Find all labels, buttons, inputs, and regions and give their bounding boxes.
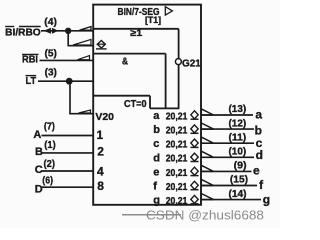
svg-text:g: g [263,193,270,207]
wire c [202,142,254,144]
svg-text:(7): (7) [44,121,55,132]
svg-text:d: d [153,152,160,164]
open-collector diamond e [191,167,199,175]
svg-text:(6): (6) [42,175,53,186]
svg-text:a: a [255,107,262,121]
wire RBO branch horizontal [68,45,94,47]
open-collector diamond f [191,181,199,189]
svg-text:[T1]: [T1] [145,15,161,25]
svg-text:(11): (11) [229,132,247,143]
svg-text:20,21: 20,21 [166,154,188,165]
svg-text:(13): (13) [229,104,247,115]
divider top of AND block [93,53,165,55]
svg-text:20,21: 20,21 [166,140,188,151]
open-collector diamond a [191,111,199,119]
svg-text:(15): (15) [230,175,248,186]
arrow left (bidirectional) [44,28,51,34]
wire G21 vertical [178,29,180,109]
open-collector diamond b [191,125,199,133]
svg-text:d: d [256,148,263,162]
svg-text:CT=0: CT=0 [124,99,147,110]
AND block right edge [165,54,167,109]
divider top of OR block [93,28,178,30]
wire d [202,156,254,158]
polarity triangle output d [201,151,213,157]
svg-text:20,21: 20,21 [166,182,188,193]
node G21 circle [175,59,181,65]
svg-text:20,21: 20,21 [166,168,188,179]
svg-text:2: 2 [97,145,104,159]
polarity triangle output e [201,165,213,171]
svg-text:1: 1 [97,128,104,142]
svg-text:≥1: ≥1 [130,28,143,39]
wire B [42,152,94,154]
svg-text:4: 4 [97,164,104,178]
symbol triangle (function indicator) [165,7,172,15]
wire C [42,170,94,172]
wire a [202,114,253,116]
polarity triangle output a [201,109,213,115]
svg-text:e: e [153,166,159,178]
open-collector diamond d [191,153,199,161]
wire V20 branch horizontal [69,113,93,115]
open-collector diamond RBO [97,41,105,49]
svg-text:CSDN @zhusl6688: CSDN @zhusl6688 [146,208,264,223]
svg-text:g: g [153,195,160,207]
svg-text:(2): (2) [44,159,56,170]
wire b [202,128,254,130]
svg-text:A: A [33,129,41,141]
wire RBI [40,59,94,61]
polarity triangle RBI [78,56,90,60]
junction node LT [66,78,73,85]
wire e [202,170,252,172]
svg-text:a: a [153,110,160,122]
divider top of CT block [93,95,150,97]
open-collector diamond g [191,195,199,203]
wire LT branch vertical [69,81,71,114]
svg-text:V20: V20 [95,112,114,123]
watermark line [122,214,181,216]
array block top edge [150,107,179,109]
svg-text:20,21: 20,21 [166,111,188,122]
svg-text:BI/RBO: BI/RBO [5,28,41,39]
svg-text:LT: LT [26,76,37,87]
arrow right (bidirectional) [52,28,58,34]
wire A [42,135,94,137]
svg-text:(1): (1) [44,140,55,151]
svg-text:b: b [153,124,160,136]
wire D [42,186,94,188]
svg-text:(3): (3) [45,67,57,78]
svg-text:(4): (4) [44,17,57,28]
polarity triangle V20 input [79,110,91,113]
wire RBO branch vertical [67,31,69,46]
svg-text:(9): (9) [234,161,247,172]
polarity triangle RBO output [73,39,91,45]
svg-text:8: 8 [97,179,104,193]
polarity triangle output c [201,137,213,143]
svg-text:20,21: 20,21 [166,126,188,137]
wire BI/RBO [41,30,93,32]
wire LT [38,80,93,82]
polarity triangle output b [201,123,213,129]
polarity triangle BI input [80,27,92,31]
svg-text:e: e [253,164,260,178]
svg-text:f: f [153,181,157,193]
svg-text:(14): (14) [229,189,247,200]
wire f [202,185,257,187]
svg-text:(12): (12) [229,118,247,129]
svg-text:c: c [153,138,159,150]
decoder U1 BIN/7-SEG outer outline [93,5,201,205]
CT block right edge [149,96,151,109]
svg-text:(10): (10) [229,147,247,158]
open-collector diamond c [191,139,199,147]
svg-text:20,21: 20,21 [166,196,188,207]
svg-text:G21: G21 [182,58,201,69]
polarity triangle output f [201,179,213,185]
svg-text:&: & [122,57,128,68]
svg-text:(5): (5) [45,49,57,60]
svg-text:RBI: RBI [22,55,38,66]
wire g [202,199,261,201]
junction node BI/RBO [65,28,71,34]
polarity triangle output g [201,194,213,200]
